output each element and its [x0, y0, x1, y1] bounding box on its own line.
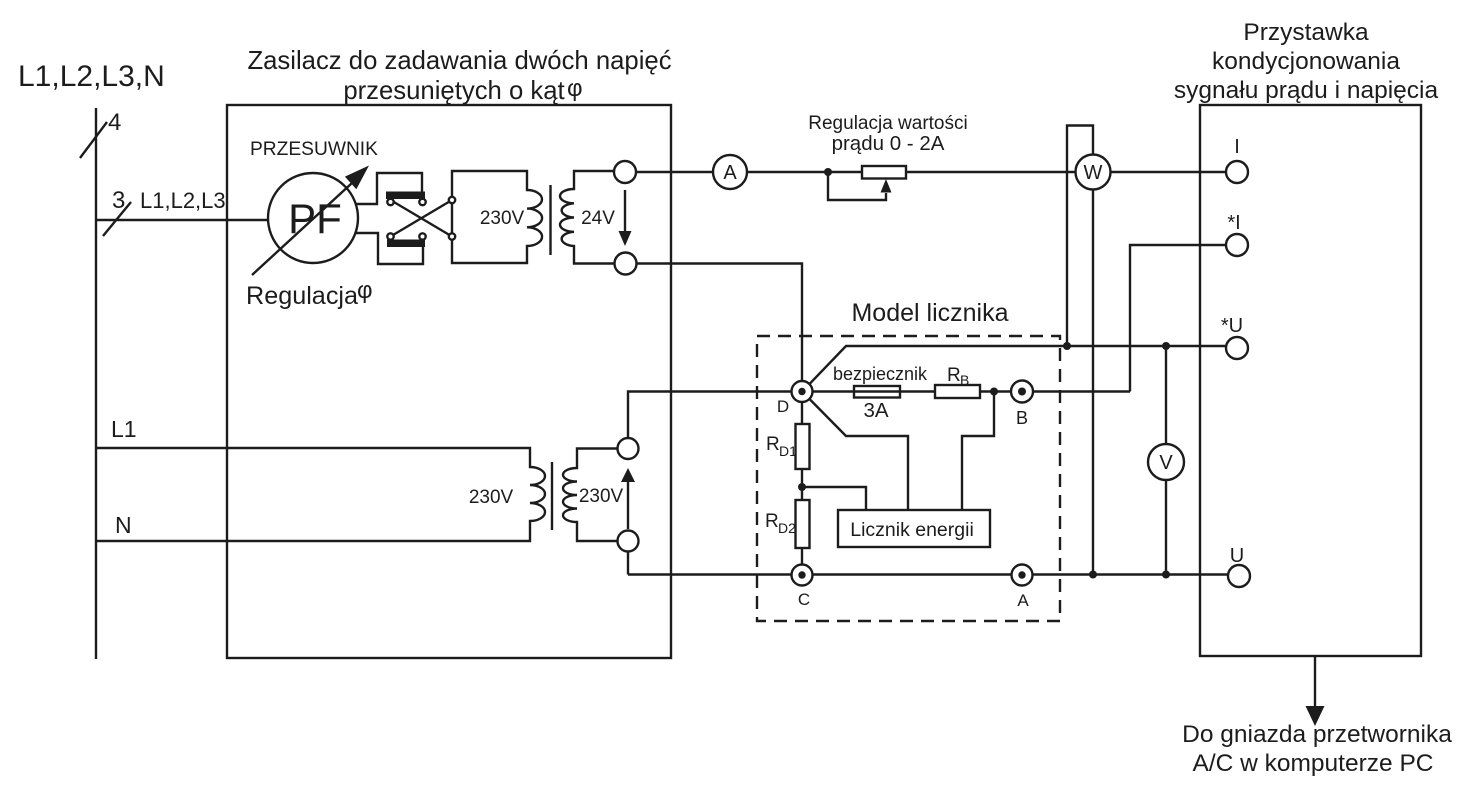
switch contact circle upper-left	[387, 199, 393, 205]
svg-text:L1: L1	[111, 416, 137, 442]
switch contact circle lower-left	[387, 233, 393, 239]
svg-text:przesuniętych o kąt: przesuniętych o kąt	[343, 77, 564, 105]
wire *U line from node D	[809, 346, 1226, 385]
svg-text:R: R	[766, 434, 780, 455]
wire rheostat to wattmeter	[906, 171, 1076, 173]
transformer T1 secondary winding 24V	[560, 171, 614, 264]
svg-text:R: R	[765, 511, 779, 532]
wire RB junction to meter	[962, 392, 994, 511]
box Licznik energii	[838, 510, 990, 547]
svg-text:kondycjonowania: kondycjonowania	[1212, 48, 1400, 75]
wire voltmeter upper	[1165, 346, 1167, 444]
switch output terminal circle lower	[449, 233, 455, 239]
svg-text:3A: 3A	[863, 399, 888, 422]
svg-text:W: W	[1084, 162, 1103, 184]
wire wattmeter to terminal I	[1111, 171, 1227, 173]
wire *I terminal to node B riser	[1130, 245, 1226, 392]
node A	[1012, 565, 1033, 586]
svg-text:230V: 230V	[579, 486, 624, 507]
svg-text:Przystawka: Przystawka	[1243, 19, 1369, 46]
rheostat tap wire	[828, 172, 886, 200]
svg-text:230V: 230V	[480, 208, 525, 229]
wire T1 upper terminal to ammeter	[636, 171, 713, 173]
svg-text:L1,L2,L3: L1,L2,L3	[140, 188, 226, 213]
svg-text:A/C w komputerze PC: A/C w komputerze PC	[1193, 750, 1434, 777]
svg-text:A: A	[1017, 591, 1029, 610]
transformer T2 core	[551, 462, 553, 530]
svg-text:PRZESUWNIK: PRZESUWNIK	[250, 139, 378, 160]
switch contact circle upper-right	[419, 199, 425, 205]
terminal circle T1 out lower	[615, 253, 637, 275]
wire ammeter to rheostat	[747, 171, 862, 173]
transformer T2 secondary winding 230V	[563, 449, 618, 542]
junction dot RD1/RD2	[798, 483, 806, 491]
box Przystawka (signal conditioner)	[1200, 105, 1421, 656]
wire main meter line through D fuse RB to B and *I riser	[628, 392, 1130, 439]
wire PF to switch upper hook	[355, 173, 422, 204]
voltmeter V	[1148, 444, 1184, 480]
voltage arrow 24V (down)	[624, 190, 626, 240]
wire node D diagonal to meter current coil	[809, 399, 908, 511]
wire T2 lower terminal down	[627, 552, 629, 575]
transformer T2 primary winding 230V (fed from L1,N)	[96, 448, 545, 541]
phase shifter PF circle	[268, 173, 358, 263]
svg-text:V: V	[1159, 452, 1173, 474]
wire left bus vertical	[95, 108, 97, 659]
svg-text:4: 4	[108, 109, 121, 136]
dashed box Model licznika	[757, 336, 1060, 621]
junction dot U line / voltmeter	[1162, 571, 1170, 579]
node D	[792, 381, 813, 402]
junction dot after RB	[990, 388, 998, 396]
svg-text:230V: 230V	[469, 487, 514, 508]
svg-text:A: A	[723, 162, 737, 184]
wire RD1/RD2 junction to meter	[802, 487, 866, 510]
svg-text:D1: D1	[779, 443, 797, 459]
wire 3-phase feed to PF	[96, 219, 268, 221]
wire 24V lower terminal to node D	[637, 264, 803, 576]
svg-text:φ: φ	[357, 277, 373, 304]
switch contact bar lower	[387, 240, 425, 248]
wire PF to switch lower hook	[355, 233, 423, 264]
svg-text:Do gniazda przetwornika: Do gniazda przetwornika	[1182, 721, 1452, 748]
svg-text:*U: *U	[1221, 315, 1243, 337]
svg-text:D2: D2	[778, 520, 796, 536]
svg-text:B: B	[1016, 408, 1028, 428]
slash mark 4-wire	[80, 122, 107, 158]
resistor RD2	[796, 500, 810, 548]
svg-text:Licznik energii: Licznik energii	[850, 519, 974, 541]
switch contact circle lower-right	[419, 233, 425, 239]
switch output terminal circle upper	[449, 197, 455, 203]
svg-text:Regulacja wartości: Regulacja wartości	[808, 113, 967, 134]
svg-text:N: N	[115, 512, 132, 538]
ammeter A	[713, 155, 747, 189]
wire bottom U line	[628, 573, 1228, 575]
svg-text:D: D	[777, 397, 789, 416]
svg-text:Model licznika: Model licznika	[851, 299, 1008, 327]
switch contact bar upper	[386, 192, 425, 200]
switch crossover wire B	[391, 200, 453, 237]
svg-text:prądu 0 - 2A: prądu 0 - 2A	[832, 132, 945, 155]
svg-text:*I: *I	[1227, 212, 1240, 234]
transformer T1 primary winding 230V	[452, 171, 542, 263]
svg-text:U: U	[1230, 545, 1244, 567]
svg-text:C: C	[798, 590, 810, 609]
box Zasilacz (power supply)	[227, 105, 671, 658]
terminal circle T2 out upper	[618, 438, 639, 459]
terminal circle T2 out lower	[618, 531, 639, 552]
transformer T1 core	[549, 185, 551, 255]
terminal U	[1228, 565, 1250, 587]
slash mark 3-wire	[103, 202, 131, 236]
terminal *I	[1226, 234, 1248, 256]
svg-text:3: 3	[112, 187, 125, 214]
terminal I	[1226, 161, 1248, 183]
wattmeter W	[1076, 155, 1111, 190]
rheostat tap arrowhead	[881, 179, 892, 193]
svg-text:φ: φ	[567, 75, 583, 102]
node C	[792, 565, 813, 586]
svg-text:bezpiecznik: bezpiecznik	[833, 364, 928, 384]
terminal *U	[1226, 337, 1248, 359]
switch crossover wire A	[391, 200, 453, 237]
wire wattmeter down to U line	[1092, 190, 1094, 575]
svg-text:B: B	[960, 372, 969, 388]
fuse bezpiecznik 3A	[854, 386, 900, 398]
voltage arrow 230V secondary (up)	[627, 478, 629, 529]
svg-text:24V: 24V	[581, 208, 615, 229]
resistor RB	[935, 385, 980, 398]
svg-text:Zasilacz do zadawania dwóch na: Zasilacz do zadawania dwóch napięć	[247, 47, 671, 75]
junction dot U line / wattmeter	[1089, 571, 1097, 579]
svg-text:Regulacja: Regulacja	[246, 282, 359, 310]
regulation diagonal arrow through PF	[252, 183, 352, 275]
junction dot *U / wattmeter bracket	[1063, 342, 1071, 350]
terminal circle T1 out upper	[614, 161, 636, 183]
rheostat body	[862, 166, 906, 179]
junction dot *U / voltmeter	[1162, 342, 1170, 350]
resistor RD1	[796, 424, 810, 469]
svg-text:sygnału prądu i napięcia: sygnału prądu i napięcia	[1174, 77, 1439, 104]
svg-text:R: R	[947, 365, 961, 386]
arrow to A/C converter	[1314, 656, 1316, 707]
svg-text:L1,L2,L3,N: L1,L2,L3,N	[18, 60, 165, 93]
junction dot at rheostat tap	[824, 168, 832, 176]
node B	[1011, 381, 1033, 403]
wire voltmeter lower	[1165, 480, 1167, 575]
svg-text:I: I	[1234, 136, 1240, 158]
wattmeter voltage bracket	[1067, 126, 1093, 347]
